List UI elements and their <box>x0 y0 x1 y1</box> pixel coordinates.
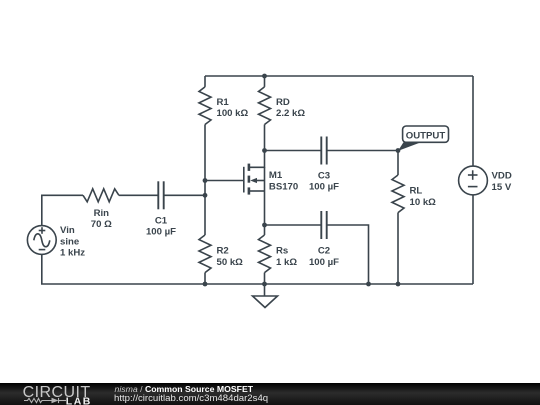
wire R2 bottom <box>204 273 206 284</box>
svg-text:10 kΩ: 10 kΩ <box>410 197 437 208</box>
node gate junction <box>203 178 208 183</box>
wire C3 branch <box>265 150 322 152</box>
resistor Rs <box>259 235 271 273</box>
svg-text:C2: C2 <box>318 246 330 257</box>
wire C1 to bias node <box>164 194 205 196</box>
svg-text:BS170: BS170 <box>269 182 298 193</box>
voltage source VDD <box>459 76 512 284</box>
node source junction <box>262 223 267 228</box>
svg-text:Rin: Rin <box>94 208 110 219</box>
svg-text:VDD: VDD <box>492 170 512 181</box>
wire gate <box>205 180 244 182</box>
svg-text:OUTPUT: OUTPUT <box>406 130 446 141</box>
wire source node to Rs <box>264 225 266 235</box>
svg-text:RD: RD <box>276 97 290 108</box>
resistor RL <box>392 175 404 213</box>
node C2 bottom junction <box>366 282 371 287</box>
node RD top junction <box>262 74 267 79</box>
capacitor C3 <box>309 137 339 193</box>
svg-text:C1: C1 <box>155 215 168 226</box>
svg-text:sine: sine <box>60 236 79 247</box>
node R2 bottom junction <box>203 282 208 287</box>
wire top rail <box>205 75 473 77</box>
node RL bottom junction <box>396 282 401 287</box>
svg-text:2.2 kΩ: 2.2 kΩ <box>276 108 305 119</box>
svg-text:50 kΩ: 50 kΩ <box>217 257 244 268</box>
svg-text:100 µF: 100 µF <box>309 257 339 268</box>
wire output to RL <box>397 151 399 176</box>
capacitor C1 <box>146 181 176 237</box>
wire C2 to bottom rail <box>327 225 369 284</box>
node ground junction <box>262 282 267 287</box>
svg-text:LAB: LAB <box>66 396 92 405</box>
svg-text:C3: C3 <box>318 171 330 182</box>
svg-text:15 V: 15 V <box>492 182 512 193</box>
ground <box>253 284 278 308</box>
node drain junction <box>262 148 267 153</box>
svg-text:100 µF: 100 µF <box>309 182 339 193</box>
wire Rin to C1 <box>119 194 158 196</box>
wire C3 to output node <box>327 150 398 152</box>
flag OUTPUT <box>398 126 449 151</box>
svg-text:R1: R1 <box>217 97 230 108</box>
svg-text:100 kΩ: 100 kΩ <box>217 108 249 119</box>
node output junction <box>396 148 401 153</box>
svg-text:M1: M1 <box>269 170 283 181</box>
transistor M1 <box>244 151 298 226</box>
svg-text:Rs: Rs <box>276 246 288 257</box>
wire left bias branch x=205 <box>204 76 206 87</box>
logo CircuitLab <box>15 383 115 405</box>
resistor R2 <box>199 235 211 273</box>
wire Rs bottom <box>264 273 266 284</box>
capacitor C2 <box>309 211 339 268</box>
wire R1 bottom to gate node <box>204 125 206 236</box>
wire RL bottom <box>397 213 399 284</box>
svg-text:100 µF: 100 µF <box>146 227 176 238</box>
wire Vin top to input <box>42 195 83 225</box>
svg-text:RL: RL <box>410 186 423 197</box>
footer bar <box>0 383 540 405</box>
footer url <box>114 393 268 404</box>
resistor RD <box>264 76 266 87</box>
svg-text:70 Ω: 70 Ω <box>91 219 112 230</box>
wire C2 branch <box>265 224 322 226</box>
resistor Rin <box>83 189 119 202</box>
svg-text:R2: R2 <box>217 246 229 257</box>
resistor R1 <box>199 87 211 125</box>
footer title <box>115 384 254 394</box>
svg-text:Vin: Vin <box>60 225 75 236</box>
wire bottom rail <box>42 254 473 284</box>
voltage source Vin <box>27 225 85 258</box>
svg-text:1 kHz: 1 kHz <box>60 248 85 259</box>
node C1 junction <box>203 193 208 198</box>
svg-text:1 kΩ: 1 kΩ <box>276 257 297 268</box>
wire RD bottom to drain node <box>264 125 266 151</box>
